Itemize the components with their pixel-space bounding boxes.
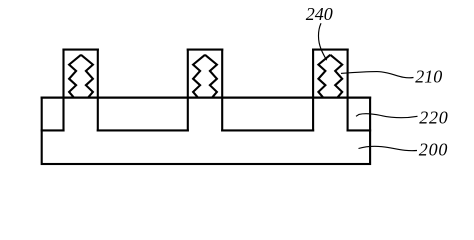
- leader for 210: [341, 72, 414, 78]
- pillar 210 left wall P3: [312, 50, 314, 131]
- substrate 200 outer rectangle: [42, 98, 370, 164]
- pillar 210 left wall P1: [62, 50, 64, 131]
- pillar 210 top P2: [188, 49, 222, 51]
- svg-text:220: 220: [419, 108, 448, 128]
- leader for 240: [318, 23, 326, 60]
- svg-text:200: 200: [419, 140, 448, 160]
- trench 220 bottom, between P1 and P2: [98, 129, 188, 131]
- trench 220 bottom, between P2 and P3: [222, 129, 313, 131]
- trench 220 bottom, left end: [42, 129, 64, 131]
- leader for 200: [359, 146, 418, 150]
- leader for 220: [356, 114, 418, 118]
- surface line (top of patterned layer, runs through pillar bases): [42, 97, 370, 99]
- pillar 210 right wall P3: [347, 50, 349, 131]
- pillar 210 left wall P2: [187, 50, 189, 131]
- svg-text:210: 210: [415, 67, 442, 87]
- pillar 210 right wall P1: [97, 50, 99, 131]
- pillar 210 top P1: [64, 49, 98, 51]
- svg-text:240: 240: [306, 4, 333, 24]
- pillar 210 top P3: [313, 49, 348, 51]
- trench 220 bottom, right end: [348, 129, 371, 131]
- zigzag 240 in pillar 2: [193, 55, 217, 98]
- zigzag 240 in pillar 1: [69, 55, 93, 98]
- zigzag 240 in pillar 3: [318, 55, 342, 98]
- pillar 210 right wall P2: [221, 50, 223, 131]
